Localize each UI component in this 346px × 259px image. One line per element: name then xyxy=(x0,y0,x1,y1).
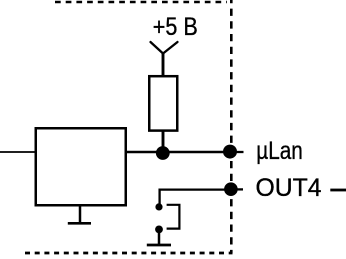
svg-text:OUT4: OUT4 xyxy=(256,175,322,202)
ground symbol under switch xyxy=(147,244,171,247)
ground symbol under box xyxy=(79,206,82,223)
module boundary: right dashed edge xyxy=(230,0,233,253)
switch contact (lower) xyxy=(155,226,163,234)
µLan pin node on boundary xyxy=(223,145,237,159)
junction node (resistor/box/µLan) xyxy=(156,146,170,160)
wire: junction node to µLan pin xyxy=(163,151,230,153)
IC / interface module box xyxy=(36,128,126,205)
wire stub: OUT4 pin to outside xyxy=(231,188,243,190)
+5V supply arrow symbol xyxy=(151,42,178,54)
svg-text:+5 В: +5 В xyxy=(153,14,198,41)
module boundary: bottom dashed edge xyxy=(25,252,233,255)
dash after OUT4 label xyxy=(330,189,346,192)
pull-up resistor R1 xyxy=(149,76,177,130)
wire: box output to junction node xyxy=(126,151,163,153)
switch actuator bracket xyxy=(167,205,180,229)
wire: lower contact to ground xyxy=(158,229,161,245)
switch contact (upper) xyxy=(155,203,162,210)
wire: resistor bottom to junction node xyxy=(162,131,165,152)
wire: OUT4 line from switch up and right to OUT4 pin xyxy=(160,190,231,207)
wire: external input into box (left) xyxy=(0,151,35,153)
OUT4 pin node on boundary xyxy=(224,182,238,196)
module boundary: top dashed edge xyxy=(55,1,227,4)
wire stub: µLan pin to outside xyxy=(230,151,244,153)
svg-text:µLan: µLan xyxy=(256,138,303,165)
